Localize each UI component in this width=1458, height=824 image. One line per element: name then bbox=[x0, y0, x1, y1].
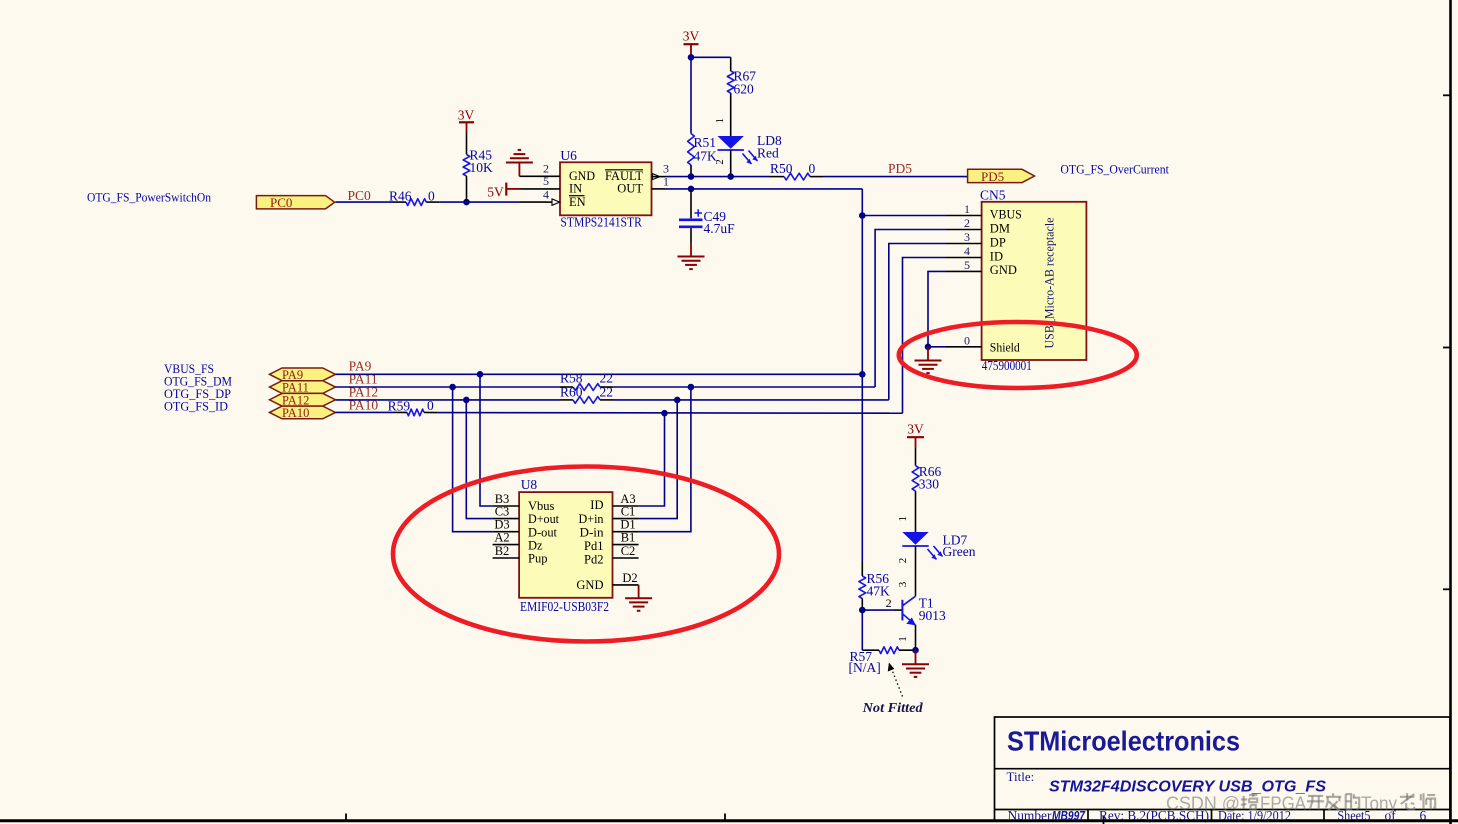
resistor R57 [N/A] bbox=[849, 647, 916, 675]
wire PA12 to U8 D+in bbox=[639, 400, 678, 519]
svg-text:DP: DP bbox=[990, 235, 1006, 249]
wire row PA12 (DP) bbox=[335, 399, 888, 401]
port PA12 bbox=[270, 393, 336, 407]
svg-text:475900001: 475900001 bbox=[982, 359, 1032, 374]
wire OUT row (pin1 to VBUS riser) bbox=[665, 189, 862, 216]
wire EN node to U6 EN bbox=[467, 201, 546, 203]
svg-text:PC0: PC0 bbox=[270, 195, 292, 210]
junction base/R57 bbox=[859, 607, 866, 614]
svg-text:3: 3 bbox=[897, 581, 909, 587]
svg-text:Number: Number bbox=[1008, 808, 1052, 823]
LED LD7 Green bbox=[897, 516, 976, 596]
junction LD8/FAULT bbox=[727, 173, 734, 180]
ground (T1 emitter) bbox=[902, 650, 929, 677]
junction 3V split bbox=[688, 54, 695, 61]
svg-text:4.7uF: 4.7uF bbox=[704, 221, 736, 236]
svg-text:OTG_FS_ID: OTG_FS_ID bbox=[164, 398, 228, 413]
port PA10 bbox=[270, 406, 336, 420]
svg-text:0: 0 bbox=[809, 161, 816, 176]
wire VBUS riser to R56/base bbox=[861, 374, 863, 561]
op-amp U6 STMPS2141STR power switch bbox=[523, 148, 669, 230]
svg-text:Vbus: Vbus bbox=[528, 499, 555, 513]
svg-text:U6: U6 bbox=[560, 148, 577, 163]
wire PA11 to U8 D-out bbox=[453, 387, 493, 532]
junction shield node bbox=[925, 344, 932, 351]
svg-text:620: 620 bbox=[734, 82, 755, 97]
svg-text:ID: ID bbox=[590, 498, 603, 512]
ground (C49) bbox=[678, 243, 705, 269]
wire DM to CN5 pin2 bbox=[875, 230, 946, 388]
svg-text:C2: C2 bbox=[621, 544, 636, 558]
svg-text:GND: GND bbox=[990, 263, 1017, 277]
svg-text:Pd2: Pd2 bbox=[584, 552, 603, 566]
svg-text:GND: GND bbox=[576, 578, 603, 592]
junction PA11/U8 D-in bbox=[688, 384, 695, 391]
resistor R51 47K bbox=[688, 57, 717, 176]
resistor R45 10K bbox=[463, 148, 493, 203]
svg-text:B1: B1 bbox=[621, 531, 636, 545]
svg-text:D-in: D-in bbox=[580, 525, 605, 539]
wire R50 to PD5 port bbox=[810, 176, 968, 178]
wire row PA11 (DM) bbox=[335, 386, 875, 388]
svg-text:CSDN @: CSDN @ bbox=[1166, 794, 1240, 814]
junction R51/FAULT bbox=[688, 173, 695, 180]
svg-text:C1: C1 bbox=[621, 505, 636, 519]
resistor R60 22 bbox=[560, 385, 613, 404]
wire PC0 to R46 bbox=[335, 201, 406, 203]
filter U8 EMIF02-USB03F2 bbox=[493, 477, 639, 614]
svg-text:EMIF02-USB03F2: EMIF02-USB03F2 bbox=[520, 599, 609, 614]
svg-text:47K: 47K bbox=[867, 584, 891, 599]
resistor R67 620 bbox=[727, 57, 756, 136]
wire base node bbox=[862, 609, 895, 611]
svg-text:A2: A2 bbox=[494, 531, 509, 545]
svg-text:USB_Micro-AB receptacle: USB_Micro-AB receptacle bbox=[1043, 217, 1057, 348]
svg-text:OTG_FS_OverCurrent: OTG_FS_OverCurrent bbox=[1060, 161, 1169, 176]
svg-text:0: 0 bbox=[964, 333, 970, 347]
junction OUT/C49 bbox=[688, 186, 695, 193]
ground (above U6 pin 2, inverted) bbox=[506, 150, 533, 176]
wire row PA9 (VBUS_FS) bbox=[335, 373, 862, 375]
svg-text:MB997: MB997 bbox=[1052, 808, 1086, 823]
svg-text:FPGA: FPGA bbox=[1260, 794, 1306, 814]
svg-text:2: 2 bbox=[897, 558, 909, 564]
svg-text:1: 1 bbox=[897, 516, 909, 522]
svg-text:Tony: Tony bbox=[1361, 794, 1397, 814]
svg-text:C3: C3 bbox=[495, 505, 510, 519]
title block texts bbox=[1007, 726, 1427, 824]
junction emitter/R57/ground bbox=[912, 647, 919, 654]
svg-text:D+out: D+out bbox=[528, 512, 559, 526]
svg-text:Green: Green bbox=[943, 544, 976, 559]
svg-text:D-out: D-out bbox=[528, 525, 558, 539]
svg-text:PA10: PA10 bbox=[282, 406, 309, 420]
svg-text:[N/A]: [N/A] bbox=[849, 660, 881, 675]
wire GND to CN5 pin5 and Shield bbox=[928, 271, 946, 346]
svg-text:OTG_FS_PowerSwitchOn: OTG_FS_PowerSwitchOn bbox=[87, 190, 211, 205]
svg-text:22: 22 bbox=[600, 385, 614, 400]
svg-text:22: 22 bbox=[600, 371, 614, 386]
svg-text:1: 1 bbox=[897, 636, 909, 642]
svg-text:DM: DM bbox=[990, 221, 1010, 235]
svg-text:Shield: Shield bbox=[990, 340, 1021, 354]
port PD5 bbox=[968, 169, 1035, 184]
svg-text:3V: 3V bbox=[458, 108, 475, 123]
title block frame bbox=[995, 717, 1451, 821]
resistor R50 0 bbox=[770, 161, 816, 180]
svg-text:ID: ID bbox=[990, 249, 1003, 263]
wire base node down to R57 bbox=[861, 610, 863, 650]
svg-text:B2: B2 bbox=[495, 544, 510, 558]
svg-text:D2: D2 bbox=[622, 571, 637, 585]
junction VBUS riser pin1 bbox=[859, 212, 866, 219]
wire PA9 to U8 Vbus bbox=[480, 374, 493, 506]
resistor R56 47K bbox=[859, 561, 890, 610]
port PC0 bbox=[256, 195, 334, 210]
svg-text:4: 4 bbox=[964, 244, 970, 258]
wire R46 to EN bbox=[426, 201, 466, 203]
svg-text:6: 6 bbox=[1420, 808, 1427, 823]
svg-text:OUT: OUT bbox=[617, 182, 643, 196]
wire PA11 to U8 D-in bbox=[639, 387, 691, 532]
capacitor C49 4.7uF bbox=[679, 189, 735, 243]
svg-text:330: 330 bbox=[919, 477, 940, 492]
svg-text:Title:: Title: bbox=[1007, 769, 1035, 784]
junction PA12/U8 D+out bbox=[463, 397, 470, 404]
annotation Not Fitted with arrow bbox=[862, 663, 923, 715]
junction PA12/U8 D+in bbox=[674, 397, 681, 404]
resistor R59 0 bbox=[388, 398, 434, 416]
svg-text:3: 3 bbox=[964, 230, 970, 244]
svg-text:1: 1 bbox=[714, 118, 726, 124]
svg-text:PD5: PD5 bbox=[888, 161, 912, 176]
junction PA9/U8 Vbus bbox=[477, 371, 484, 378]
connector CN5 USB Micro-AB receptacle bbox=[946, 187, 1086, 373]
port PA11 bbox=[270, 381, 336, 395]
svg-text:PC0: PC0 bbox=[348, 188, 372, 203]
svg-text:D3: D3 bbox=[494, 518, 509, 532]
watermark CSDN bbox=[1166, 793, 1435, 813]
junction PA11/U8 D-out bbox=[449, 384, 456, 391]
svg-text:CN5: CN5 bbox=[980, 187, 1006, 202]
svg-text:D+in: D+in bbox=[579, 512, 605, 526]
svg-text:PD5: PD5 bbox=[981, 169, 1004, 184]
svg-text:0: 0 bbox=[428, 189, 435, 204]
svg-text:2: 2 bbox=[964, 216, 970, 230]
svg-text:47K: 47K bbox=[694, 149, 718, 164]
wire FAULT row (pin3 to R50) bbox=[665, 176, 784, 178]
transistor T1 9013 bbox=[886, 581, 946, 650]
svg-text:9013: 9013 bbox=[919, 608, 946, 623]
svg-text:5V: 5V bbox=[487, 185, 504, 200]
svg-text:Dz: Dz bbox=[528, 539, 543, 553]
svg-text:STMicroelectronics: STMicroelectronics bbox=[1007, 726, 1240, 757]
ground (U8 GND pin D2) bbox=[625, 585, 652, 611]
resistor R58 22 bbox=[560, 371, 613, 391]
svg-text:IN: IN bbox=[569, 182, 582, 196]
svg-text:3V: 3V bbox=[907, 422, 924, 437]
red ellipse annotation (CN5 shield) bbox=[899, 322, 1137, 388]
wire 3V to R67 branch bbox=[691, 56, 731, 58]
svg-text:5: 5 bbox=[543, 174, 549, 188]
svg-text:R46: R46 bbox=[389, 189, 412, 204]
resistor R46 0 bbox=[389, 189, 435, 206]
svg-text:10K: 10K bbox=[470, 160, 494, 175]
svg-text:Pup: Pup bbox=[528, 552, 547, 566]
svg-text:1: 1 bbox=[964, 202, 970, 216]
ground (CN5 shield) bbox=[915, 347, 942, 373]
svg-text:Not Fitted: Not Fitted bbox=[862, 700, 923, 715]
red ellipse annotation (U8) bbox=[393, 467, 779, 642]
svg-text:5: 5 bbox=[964, 258, 970, 272]
wire PA12 to U8 D+out bbox=[466, 400, 492, 519]
LED LD8 Red bbox=[714, 118, 782, 177]
power 5V (bar, U6 IN pin 5) bbox=[487, 183, 523, 200]
svg-text:VBUS: VBUS bbox=[990, 207, 1022, 221]
svg-text:EN: EN bbox=[569, 195, 586, 209]
wire VBUS to CN5 pin1 bbox=[862, 216, 946, 375]
svg-text:D1: D1 bbox=[620, 518, 635, 532]
svg-text:Pd1: Pd1 bbox=[584, 539, 603, 553]
wire PA10 to U8 ID bbox=[639, 413, 665, 506]
resistor R66 330 bbox=[912, 464, 941, 532]
junction EN node bbox=[463, 199, 470, 206]
svg-text:3V: 3V bbox=[683, 29, 700, 44]
power 3V (R66 branch) bbox=[907, 422, 924, 466]
power 3V (top, net to R51/R67) bbox=[683, 29, 700, 58]
svg-text:4: 4 bbox=[543, 187, 549, 201]
svg-text:U8: U8 bbox=[521, 477, 538, 492]
svg-text:Red: Red bbox=[757, 146, 779, 161]
junction PA9/VBUS riser bbox=[859, 371, 866, 378]
svg-text:0: 0 bbox=[427, 398, 434, 413]
power 3V (R45 pull-up) bbox=[458, 108, 475, 155]
port PA9 bbox=[270, 368, 336, 382]
svg-text:R59: R59 bbox=[388, 399, 411, 414]
junction PA10/U8 ID bbox=[661, 410, 668, 417]
svg-text:STMPS2141STR: STMPS2141STR bbox=[560, 214, 642, 229]
wire row PA10 (ID) bbox=[335, 411, 902, 414]
wire DP to CN5 pin3 bbox=[889, 244, 946, 400]
wire ID to CN5 pin4 bbox=[903, 258, 947, 414]
